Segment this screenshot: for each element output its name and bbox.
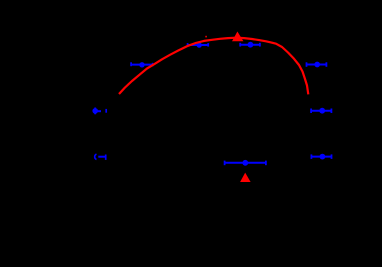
limit marker P2 (left arc, bar and cap) (95, 154, 106, 160)
data point P4 (188, 42, 209, 47)
data point P1 (left upper, right-only error bar) (92, 108, 106, 115)
red triangle T2 (below P9) (240, 173, 251, 182)
data point P6 (306, 62, 326, 68)
stray red fleck (205, 36, 207, 38)
data point P3 (131, 62, 153, 67)
data point P5 (240, 42, 260, 48)
red curve (119, 38, 308, 95)
red triangle T1 (on curve peak) (232, 32, 243, 42)
data point P8 (311, 154, 331, 160)
data point P9 (wide error bar, bottom middle) (225, 160, 267, 166)
data point P7 (311, 108, 332, 114)
